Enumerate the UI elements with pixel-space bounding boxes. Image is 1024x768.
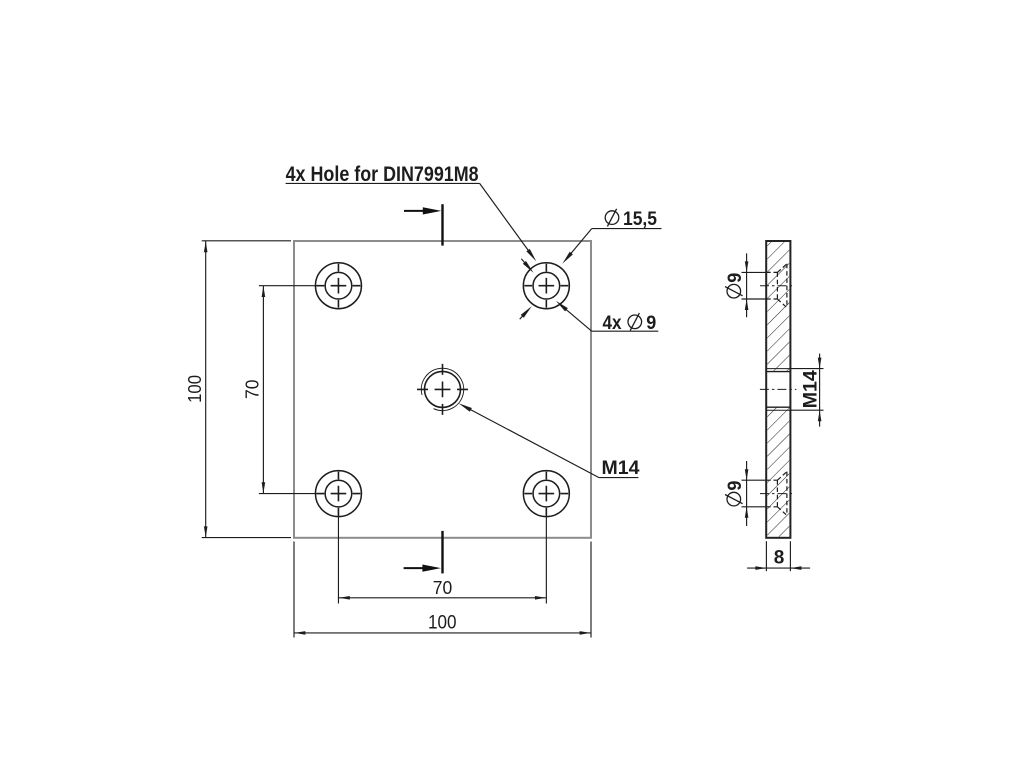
dimension 100 bottom [294,542,591,638]
center mark hole bottom-left [316,472,360,516]
M14 tapped hole section [766,369,790,411]
center line bottom hole side [760,493,795,495]
center mark hole top-right [524,264,568,308]
section cutting plane arrow top [404,204,443,245]
central hole M14 threaded [425,371,461,407]
dimension dia 9 top (side) [742,253,767,317]
hole top-right (countersunk DIN7991) [523,263,569,309]
hatching lower [767,407,789,537]
dimension 8 thickness [747,541,810,571]
hole bottom-left (countersunk DIN7991) [315,471,361,517]
svg-text:8: 8 [774,548,785,569]
svg-text:100: 100 [428,613,457,634]
svg-text:70: 70 [433,577,453,598]
side view section body [766,241,790,538]
center line M14 side [760,388,797,390]
dimension 70 left [259,286,324,494]
hatching upper [767,242,789,372]
plate front view outline [294,241,591,538]
callout dia 15,5 [605,209,619,227]
hole bottom-right (countersunk DIN7991) [523,471,569,517]
hidden countersunk hole top (side view) [766,264,787,308]
dimension 70 bottom [338,509,546,604]
svg-text:4x Hole for DIN7991M8: 4x Hole for DIN7991M8 [286,162,479,186]
svg-text:70: 70 [242,380,262,400]
svg-text:100: 100 [185,375,205,403]
dimension 100 left [202,241,291,538]
center line top hole side [760,285,795,287]
center mark hole bottom-right [524,472,568,516]
dimension dia 9 bottom (side) [742,461,767,526]
center mark hole top-left [316,264,360,308]
svg-text:15,5: 15,5 [623,209,657,230]
label dia 9 top [725,273,746,298]
leader stub SW [520,313,526,319]
label dia 9 bottom [725,481,746,506]
hidden countersunk hole bottom (side view) [766,472,787,516]
section cutting plane arrow bottom [404,531,443,574]
leader stub NW [521,259,527,266]
svg-text:M14: M14 [800,370,821,408]
thread arc M14 [421,368,463,410]
dimension M14 (side) [790,354,823,427]
svg-text:M14: M14 [602,458,640,479]
hole top-left (countersunk DIN7991) [315,263,361,309]
center mark central hole [417,364,468,415]
svg-text:9: 9 [725,481,746,491]
svg-text:9: 9 [725,273,746,283]
